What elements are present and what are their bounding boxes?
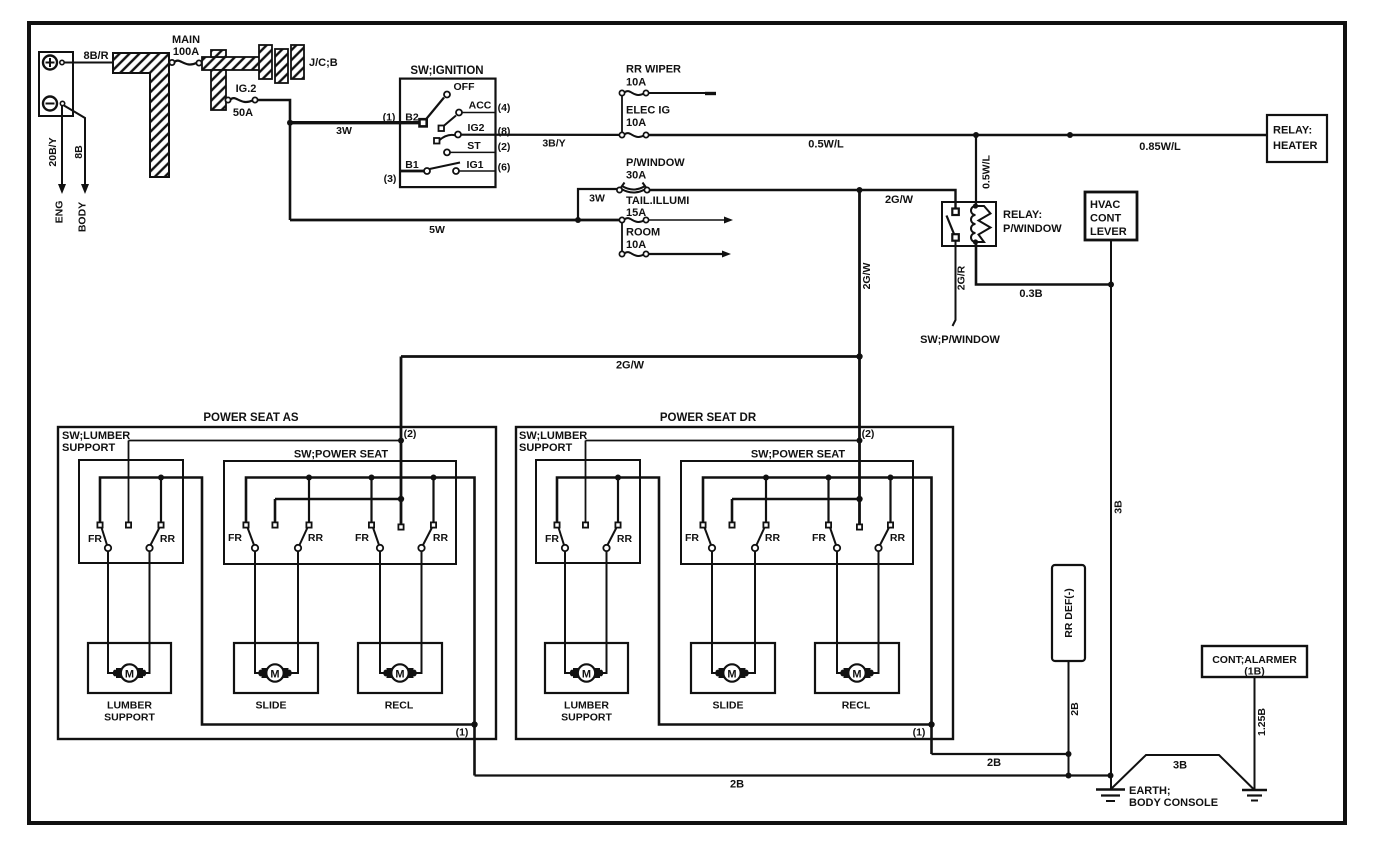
- svg-text:FR: FR: [355, 532, 369, 544]
- svg-text:1.25B: 1.25B: [1256, 708, 1268, 736]
- svg-text:(8): (8): [498, 126, 511, 138]
- svg-text:RR: RR: [617, 533, 633, 545]
- svg-text:RR: RR: [890, 532, 906, 544]
- svg-text:(1B): (1B): [1244, 666, 1264, 678]
- svg-text:2G/W: 2G/W: [885, 194, 914, 206]
- svg-text:2B: 2B: [730, 779, 744, 791]
- svg-text:M: M: [125, 669, 134, 681]
- svg-text:POWER SEAT DR: POWER SEAT DR: [660, 412, 757, 424]
- svg-text:(1): (1): [383, 112, 396, 124]
- svg-text:SUPPORT: SUPPORT: [62, 442, 115, 454]
- svg-text:IG1: IG1: [467, 159, 484, 171]
- svg-text:M: M: [727, 669, 736, 681]
- svg-text:P/WINDOW: P/WINDOW: [626, 157, 685, 169]
- svg-text:M: M: [395, 669, 404, 681]
- svg-text:M: M: [852, 669, 861, 681]
- svg-text:RR: RR: [765, 532, 781, 544]
- svg-text:SW;POWER SEAT: SW;POWER SEAT: [751, 449, 846, 461]
- svg-text:LUMBER: LUMBER: [107, 700, 152, 712]
- svg-text:20B/Y: 20B/Y: [47, 137, 59, 166]
- svg-text:2G/R: 2G/R: [956, 265, 968, 290]
- svg-text:100A: 100A: [173, 46, 199, 58]
- svg-text:RR DEF(-): RR DEF(-): [1063, 588, 1075, 638]
- svg-text:SLIDE: SLIDE: [256, 700, 287, 712]
- svg-text:50A: 50A: [233, 107, 253, 119]
- svg-text:RR: RR: [160, 533, 176, 545]
- svg-text:3W: 3W: [336, 125, 352, 137]
- svg-text:(2): (2): [862, 428, 875, 440]
- svg-text:2B: 2B: [1069, 702, 1081, 716]
- svg-text:SW;P/WINDOW: SW;P/WINDOW: [920, 334, 1000, 346]
- svg-text:SW;LUMBER: SW;LUMBER: [519, 430, 587, 442]
- svg-text:(4): (4): [498, 102, 511, 114]
- svg-text:HEATER: HEATER: [1273, 140, 1317, 152]
- svg-text:FR: FR: [88, 533, 102, 545]
- svg-text:2B: 2B: [987, 757, 1001, 769]
- svg-text:B2: B2: [405, 112, 419, 124]
- svg-text:HVAC: HVAC: [1090, 199, 1120, 211]
- svg-text:RR: RR: [308, 532, 324, 544]
- svg-text:IG2: IG2: [468, 122, 485, 134]
- svg-text:B1: B1: [405, 159, 419, 171]
- svg-text:RR: RR: [433, 532, 449, 544]
- svg-text:SW;LUMBER: SW;LUMBER: [62, 430, 130, 442]
- svg-text:0.5W/L: 0.5W/L: [808, 139, 844, 151]
- svg-text:RECL: RECL: [385, 700, 414, 712]
- svg-text:(6): (6): [498, 162, 511, 174]
- svg-text:(3): (3): [384, 173, 397, 185]
- svg-text:(1): (1): [456, 727, 469, 739]
- svg-text:2G/W: 2G/W: [861, 262, 873, 289]
- svg-text:3B: 3B: [1173, 760, 1187, 772]
- svg-text:ELEC IG: ELEC IG: [626, 105, 670, 117]
- svg-text:FR: FR: [228, 532, 242, 544]
- svg-text:CONT: CONT: [1090, 213, 1121, 225]
- svg-text:SUPPORT: SUPPORT: [519, 442, 572, 454]
- svg-text:P/WINDOW: P/WINDOW: [1003, 223, 1062, 235]
- svg-text:3W: 3W: [589, 193, 605, 205]
- svg-text:ACC: ACC: [469, 100, 492, 112]
- svg-text:(2): (2): [498, 141, 511, 153]
- svg-text:LUMBER: LUMBER: [564, 700, 609, 712]
- svg-text:CONT;ALARMER: CONT;ALARMER: [1212, 654, 1297, 666]
- svg-text:OFF: OFF: [454, 81, 476, 93]
- svg-text:3B: 3B: [1113, 500, 1125, 514]
- svg-text:RECL: RECL: [842, 700, 871, 712]
- svg-text:FR: FR: [812, 532, 826, 544]
- svg-text:RR WIPER: RR WIPER: [626, 64, 681, 76]
- svg-text:30A: 30A: [626, 170, 646, 182]
- svg-text:0.5W/L: 0.5W/L: [981, 154, 993, 188]
- svg-text:10A: 10A: [626, 239, 646, 251]
- svg-text:10A: 10A: [626, 77, 646, 89]
- svg-text:ST: ST: [467, 140, 481, 152]
- svg-text:FR: FR: [545, 533, 559, 545]
- svg-text:0.85W/L: 0.85W/L: [1139, 141, 1181, 153]
- svg-text:TAIL.ILLUMI: TAIL.ILLUMI: [626, 195, 689, 207]
- svg-text:EARTH;: EARTH;: [1129, 785, 1171, 797]
- svg-text:(1): (1): [913, 727, 926, 739]
- svg-text:SLIDE: SLIDE: [713, 700, 744, 712]
- svg-text:M: M: [270, 669, 279, 681]
- svg-text:3B/Y: 3B/Y: [542, 138, 565, 150]
- svg-text:IG.2: IG.2: [236, 83, 257, 95]
- svg-text:15A: 15A: [626, 207, 646, 219]
- svg-text:SW;POWER SEAT: SW;POWER SEAT: [294, 449, 389, 461]
- svg-text:FR: FR: [685, 532, 699, 544]
- svg-text:MAIN: MAIN: [172, 34, 200, 46]
- svg-text:0.3B: 0.3B: [1019, 288, 1042, 300]
- svg-text:RELAY:: RELAY:: [1273, 125, 1312, 137]
- svg-text:5W: 5W: [429, 224, 445, 236]
- svg-text:2G/W: 2G/W: [616, 360, 645, 372]
- svg-text:RELAY:: RELAY:: [1003, 209, 1042, 221]
- svg-text:SW;IGNITION: SW;IGNITION: [410, 65, 483, 77]
- svg-text:(2): (2): [404, 428, 417, 440]
- svg-text:8B: 8B: [73, 145, 85, 159]
- svg-text:10A: 10A: [626, 117, 646, 129]
- svg-text:J/C;B: J/C;B: [309, 57, 338, 69]
- svg-text:ROOM: ROOM: [626, 227, 660, 239]
- svg-text:SUPPORT: SUPPORT: [104, 712, 155, 724]
- svg-text:8B/R: 8B/R: [83, 50, 108, 62]
- svg-text:ENG: ENG: [54, 201, 66, 224]
- svg-text:SUPPORT: SUPPORT: [561, 712, 612, 724]
- svg-text:BODY: BODY: [77, 202, 89, 232]
- svg-text:LEVER: LEVER: [1090, 226, 1127, 238]
- svg-text:M: M: [582, 669, 591, 681]
- svg-text:BODY CONSOLE: BODY CONSOLE: [1129, 797, 1218, 809]
- svg-text:POWER SEAT AS: POWER SEAT AS: [203, 412, 299, 424]
